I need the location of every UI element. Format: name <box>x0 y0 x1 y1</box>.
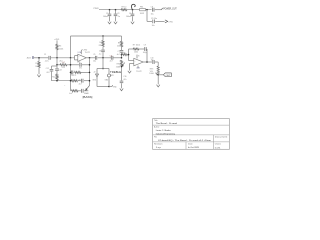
svg-text:J2: J2 <box>93 72 95 74</box>
svg-text:10u: 10u <box>151 14 154 16</box>
svg-text:10kB: 10kB <box>116 67 121 69</box>
svg-text:GND: GND <box>92 79 96 81</box>
svg-text:The Bezel - 1k mod: The Bezel - 1k mod <box>156 123 178 125</box>
svg-text:10k: 10k <box>122 52 125 54</box>
svg-text:8: 8 <box>138 56 139 58</box>
svg-text:10u: 10u <box>93 61 96 63</box>
svg-text:SW1: SW1 <box>110 75 113 77</box>
svg-text:100uF: 100uF <box>103 16 109 18</box>
svg-text:.1u: .1u <box>98 53 101 55</box>
svg-text:10kB: 10kB <box>84 93 89 95</box>
svg-text:22k: 22k <box>99 45 102 47</box>
svg-text:TL072: TL072 <box>136 71 142 73</box>
svg-text:47n: 47n <box>79 67 82 69</box>
svg-text:U1A: U1A <box>78 51 82 54</box>
svg-text:C15: C15 <box>78 79 81 81</box>
svg-text:C9 10u: C9 10u <box>151 18 157 20</box>
svg-text:[BASS]: [BASS] <box>83 96 93 99</box>
svg-text:07-band-EQ - The Bezel - 1k: 07-band-EQ - The Bezel - 1k mod v0.1 4-b… <box>158 140 212 142</box>
svg-text:100R: 100R <box>140 13 145 15</box>
svg-text:TR2.2: TR2.2 <box>71 75 77 77</box>
svg-text:TL072: TL072 <box>85 52 91 54</box>
svg-text:OUT: OUT <box>166 75 172 77</box>
svg-text:In Oct 2025: In Oct 2025 <box>188 146 200 149</box>
svg-text:GND: GND <box>113 87 117 89</box>
svg-text:GND: GND <box>105 79 109 81</box>
svg-text:10u: 10u <box>151 60 154 62</box>
svg-text:←: ← <box>64 85 66 87</box>
svg-text:22k: 22k <box>117 46 120 48</box>
svg-text:File: File <box>154 137 157 139</box>
svg-text:Industrial Engineering: Industrial Engineering <box>156 132 176 135</box>
svg-text:100k: 100k <box>59 49 63 51</box>
svg-text:Author: Author <box>154 126 160 129</box>
svg-text:Louis C. Banks: Louis C. Banks <box>156 130 172 132</box>
svg-text:100k: 100k <box>134 52 138 54</box>
svg-text:100uF: 100uF <box>126 16 132 18</box>
svg-text:10kB: 10kB <box>149 73 154 75</box>
svg-text:Check: Check <box>215 144 221 146</box>
svg-text:POWER_OUT: POWER_OUT <box>163 7 177 10</box>
svg-text:47n: 47n <box>46 72 49 74</box>
svg-text:R9 10: R9 10 <box>122 7 128 9</box>
svg-text:.22u: .22u <box>45 61 49 63</box>
svg-text:10u: 10u <box>152 25 155 27</box>
svg-text:Revision: Revision <box>154 144 163 146</box>
svg-text:.1u: .1u <box>117 16 120 18</box>
svg-text:TREBLE: TREBLE <box>110 70 121 74</box>
svg-text:PWR: PWR <box>94 8 100 10</box>
svg-text:Title: Title <box>154 119 158 122</box>
svg-text:+9V0: +9V0 <box>83 49 87 51</box>
svg-text:47n: 47n <box>123 79 126 81</box>
svg-text:1 of 1: 1 of 1 <box>215 147 222 149</box>
svg-text:Document: Document <box>215 136 228 139</box>
svg-text:1M: 1M <box>35 66 37 68</box>
svg-text:Date: Date <box>188 143 193 146</box>
svg-text:U2B: U2B <box>136 68 140 70</box>
svg-text:R7 100k: R7 100k <box>133 45 140 47</box>
